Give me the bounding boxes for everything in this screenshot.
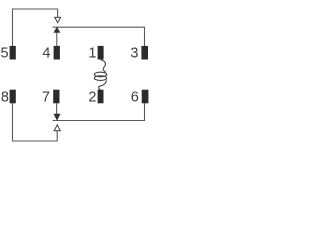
svg-text:8: 8	[1, 89, 9, 105]
svg-text:6: 6	[131, 89, 139, 105]
svg-text:2: 2	[88, 89, 96, 105]
svg-text:7: 7	[42, 89, 50, 105]
svg-text:4: 4	[42, 46, 50, 62]
svg-text:1: 1	[88, 46, 96, 62]
svg-text:3: 3	[130, 46, 138, 62]
svg-text:5: 5	[1, 46, 9, 62]
